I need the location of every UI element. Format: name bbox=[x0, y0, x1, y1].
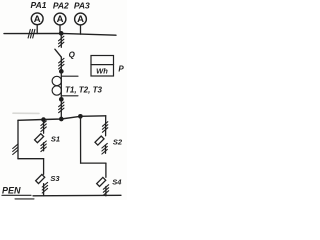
wire PEN artifact segment bbox=[15, 198, 34, 200]
svg-text:S4: S4 bbox=[112, 178, 122, 187]
svg-text:Q: Q bbox=[69, 50, 76, 59]
svg-text:PEN: PEN bbox=[2, 185, 21, 195]
fuse-switch S2 bbox=[95, 136, 104, 145]
wire PEN underline bbox=[2, 194, 31, 196]
ammeter PA1 bbox=[31, 13, 43, 25]
wire PA2 lead bbox=[59, 25, 61, 33]
node junction below CT bbox=[59, 97, 64, 102]
node S1 tap bbox=[41, 117, 46, 122]
3-phase slash group above lower bus bbox=[59, 102, 64, 113]
svg-text:S3: S3 bbox=[50, 174, 60, 183]
wire PA1 lead bbox=[36, 25, 38, 34]
fuse-switch S4 bbox=[97, 177, 106, 186]
wire S2 outgoing bbox=[105, 145, 107, 153]
wire S3 outgoing bbox=[43, 184, 45, 196]
svg-text:PA3: PA3 bbox=[74, 1, 90, 11]
3-phase slash left branch bbox=[13, 144, 18, 155]
wire CT primary bbox=[60, 71, 62, 99]
fuse-switch S3 bbox=[36, 174, 45, 183]
3-phase slash S2 lower bbox=[102, 143, 107, 154]
svg-text:A: A bbox=[34, 14, 41, 25]
wire left branch across bbox=[18, 158, 44, 160]
current transformers T1,T2,T3 winding bbox=[52, 76, 78, 96]
wire right branch down bbox=[80, 116, 82, 163]
3-phase slash group below switch bbox=[59, 58, 64, 69]
wire main drop upper bbox=[60, 33, 62, 47]
wire PA3 lead bbox=[80, 25, 82, 34]
wire lower distribution bus bbox=[18, 116, 106, 121]
wire S2 feeder bbox=[105, 116, 107, 136]
3-phase slash S4 bbox=[103, 185, 108, 196]
svg-text:PA1: PA1 bbox=[31, 0, 47, 10]
node junction top bbox=[59, 31, 64, 36]
3-phase slash S1 lower bbox=[41, 141, 46, 152]
wire top supply bus bbox=[4, 33, 116, 35]
ammeter PA2 bbox=[54, 13, 66, 25]
wire main drop lower bbox=[60, 99, 62, 119]
svg-text:A: A bbox=[57, 14, 64, 25]
wire S3 feeder bbox=[43, 159, 45, 175]
switch Q blade bbox=[55, 49, 62, 57]
svg-text:Wh: Wh bbox=[96, 67, 108, 76]
meter P (Wh) box bbox=[91, 56, 114, 77]
svg-text:P: P bbox=[118, 65, 124, 74]
svg-text:S1: S1 bbox=[51, 134, 60, 143]
wire left branch down bbox=[17, 120, 19, 158]
wire S1 outgoing bbox=[43, 143, 45, 151]
wire S4 feeder bbox=[105, 163, 107, 177]
3-phase slash S3 bbox=[42, 182, 47, 193]
fuse-switch S1 bbox=[35, 134, 44, 143]
svg-text:A: A bbox=[77, 14, 84, 25]
3-phase slash S2 upper bbox=[102, 122, 107, 133]
svg-text:T1, T2, T3: T1, T2, T3 bbox=[65, 85, 102, 94]
ammeter PA3 bbox=[75, 13, 87, 25]
wire PEN bus bbox=[33, 194, 121, 197]
3-phase slash S1 upper bbox=[41, 121, 46, 132]
wire S1 feeder bbox=[43, 120, 45, 134]
node center tap bbox=[59, 117, 64, 122]
wire S4 outgoing bbox=[105, 187, 107, 196]
node junction above CT bbox=[59, 69, 64, 74]
scan smudge artifact bbox=[13, 112, 39, 114]
svg-text:S2: S2 bbox=[113, 137, 123, 146]
3-phase slash group above switch bbox=[59, 36, 64, 47]
3-phase slash on top bus bbox=[28, 29, 35, 38]
node right branch tap bbox=[78, 114, 83, 119]
wire below switch bbox=[60, 57, 62, 71]
wire right branch across bbox=[81, 162, 106, 164]
svg-text:PA2: PA2 bbox=[53, 1, 69, 11]
